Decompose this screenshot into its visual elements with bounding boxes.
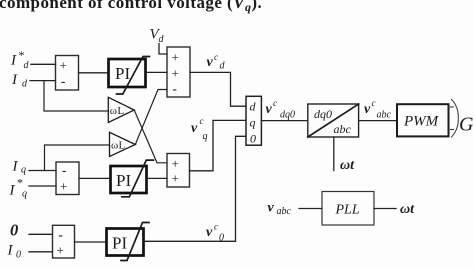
- gain wL1 (top triangle): [108, 97, 134, 122]
- svg-text:d: d: [250, 100, 257, 114]
- PI controller PI3: [107, 223, 150, 261]
- wire Id to summer1: [30, 80, 56, 82]
- svg-text:0: 0: [16, 250, 21, 261]
- svg-text:q: q: [203, 131, 208, 142]
- svg-text:ωL: ωL: [110, 105, 125, 117]
- label ved: [207, 52, 226, 72]
- label I*d: [10, 48, 30, 71]
- svg-text:v: v: [206, 225, 213, 240]
- wire transform to PWM: [359, 120, 397, 122]
- svg-text:0: 0: [250, 132, 256, 146]
- wire Iq branch up to wL2: [45, 145, 110, 171]
- svg-text:+: +: [172, 171, 179, 186]
- svg-text:I: I: [12, 159, 19, 175]
- svg-text:PI: PI: [112, 234, 127, 253]
- summer Sq (+ +): [167, 154, 190, 188]
- svg-text:I: I: [7, 243, 14, 259]
- wire dq0 to transform: [261, 120, 307, 122]
- wire vabc to PLL: [299, 208, 322, 210]
- wire PI3 out to dq0 block (0 input): [144, 136, 246, 241]
- wire wL1 cross down to summer Sq: [134, 110, 167, 163]
- PWM block: [397, 104, 449, 136]
- svg-text:c: c: [372, 98, 376, 108]
- wire Id branch down to wL1: [44, 81, 108, 111]
- wire Sq out to dq0 block (q input): [190, 120, 247, 170]
- svg-text:c: c: [273, 98, 277, 108]
- wire I0 to summer S4: [29, 251, 53, 253]
- svg-text:component of control voltage (: component of control voltage (Vq).: [0, 0, 262, 14]
- wire PLL to wt: [374, 208, 396, 210]
- label ve0: [206, 222, 224, 244]
- svg-text:ωt: ωt: [340, 158, 355, 173]
- label wt (transform): [340, 158, 355, 173]
- wire wt into transform: [333, 137, 335, 171]
- caption text (clipped at top): component of control voltage (Vq).: [0, 0, 262, 14]
- svg-text:q: q: [250, 116, 256, 130]
- summer S1 (+ -): [56, 56, 79, 91]
- label I*q: [9, 176, 28, 200]
- svg-text:+: +: [57, 243, 64, 258]
- gate fanout brace: [449, 100, 459, 138]
- wire PI1 to summer Sd: [146, 71, 167, 73]
- svg-text:v: v: [191, 121, 198, 136]
- svg-text:G: G: [459, 114, 474, 136]
- wire wL2 cross up to summer Sd: [135, 90, 167, 145]
- transform block dq0/abc: [308, 104, 359, 137]
- svg-text:+: +: [60, 179, 67, 194]
- svg-text:abc: abc: [334, 122, 352, 136]
- svg-text:abc: abc: [277, 206, 292, 217]
- svg-text:PWM: PWM: [403, 114, 440, 130]
- wire Vd into summer Sd: [159, 44, 167, 55]
- PI controller PI2: [111, 160, 154, 197]
- wire Iq to summer S2: [29, 170, 56, 172]
- label vabc (PLL input): [268, 201, 292, 218]
- svg-text:c: c: [214, 222, 218, 232]
- svg-text:v: v: [207, 55, 214, 70]
- label I0: [7, 243, 22, 261]
- svg-text:abc: abc: [377, 110, 392, 121]
- svg-text:d: d: [220, 61, 226, 72]
- label veabc: [364, 98, 392, 121]
- svg-text:PLL: PLL: [335, 203, 360, 218]
- svg-text:+: +: [60, 58, 67, 73]
- svg-text:-: -: [59, 227, 63, 242]
- wire PI2 to summer Sq: [147, 177, 167, 179]
- svg-text:-: -: [173, 81, 177, 96]
- label 0: [10, 221, 18, 240]
- label veq: [191, 116, 208, 142]
- svg-text:*: *: [17, 176, 23, 190]
- wire I*q to summer S2: [29, 185, 56, 187]
- svg-text:q: q: [22, 189, 27, 200]
- wire S4 to PI3: [75, 241, 107, 243]
- label Iq: [12, 159, 27, 176]
- label Vd: [150, 27, 165, 46]
- label G: [459, 114, 474, 136]
- svg-text:-: -: [62, 163, 66, 178]
- PI controller PI1: [109, 57, 150, 95]
- PLL block: [322, 192, 374, 226]
- summer S4 (- +): [53, 225, 75, 258]
- svg-text:d: d: [24, 60, 30, 71]
- summer Sd (+ + -): [167, 47, 190, 97]
- svg-text:c: c: [214, 52, 218, 62]
- wire 0 to summer S4: [29, 233, 53, 235]
- svg-text:dq0: dq0: [280, 110, 295, 121]
- label Id: [11, 72, 28, 90]
- label vedq0: [266, 98, 296, 121]
- wire S2 to PI2: [79, 177, 110, 179]
- svg-text:I: I: [10, 53, 17, 69]
- svg-text:d: d: [22, 79, 28, 90]
- svg-text:c: c: [200, 116, 204, 126]
- svg-text:dq0: dq0: [314, 107, 332, 121]
- svg-text:v: v: [266, 102, 273, 117]
- svg-text:-: -: [61, 74, 65, 89]
- mux block dq0: [246, 96, 261, 145]
- svg-text:PI: PI: [115, 64, 130, 83]
- wire summer1 to PI1: [79, 72, 109, 74]
- svg-text:v: v: [268, 201, 275, 216]
- svg-text:ωL: ωL: [111, 140, 126, 152]
- svg-text:+: +: [172, 66, 179, 81]
- svg-text:v: v: [364, 102, 371, 117]
- svg-text:q: q: [21, 165, 26, 176]
- svg-text:I: I: [11, 72, 18, 88]
- label wt (PLL output): [400, 202, 415, 217]
- wire Sd out to dq0 block (d input): [190, 72, 246, 106]
- svg-text:PI: PI: [116, 171, 131, 190]
- wire I*d to summer1: [31, 63, 56, 65]
- svg-text:ωt: ωt: [400, 202, 415, 217]
- svg-text:0: 0: [10, 221, 18, 240]
- gain wL2 (bottom triangle): [110, 132, 136, 156]
- svg-text:+: +: [172, 156, 179, 171]
- svg-text:I: I: [9, 183, 16, 199]
- svg-text:+: +: [172, 50, 179, 65]
- summer S2 (- +): [56, 162, 79, 195]
